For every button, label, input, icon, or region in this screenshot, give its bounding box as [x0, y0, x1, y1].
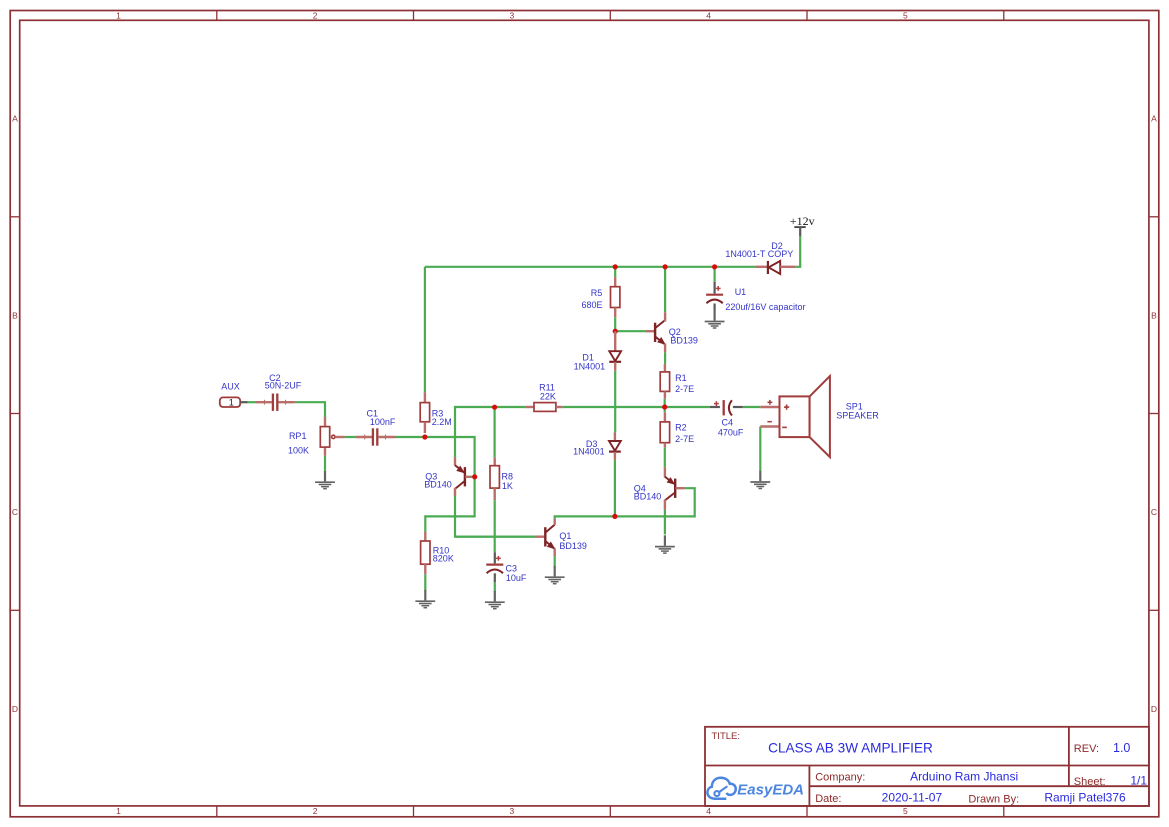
svg-text:1N4001: 1N4001	[573, 447, 605, 457]
diode D3	[609, 432, 621, 460]
wire RP1 wiper to C1	[345, 436, 356, 438]
resistor R1	[660, 364, 669, 399]
svg-text:680E: 680E	[581, 300, 602, 310]
svg-text:820K: 820K	[433, 553, 454, 563]
svg-text:C: C	[12, 507, 18, 517]
label C1	[367, 409, 396, 427]
svg-text:+12v: +12v	[790, 214, 815, 228]
transistor Q4	[665, 467, 685, 510]
svg-text:EasyEDA: EasyEDA	[737, 781, 804, 798]
wire Q1 emitter to ground	[554, 556, 556, 567]
label R1	[675, 373, 694, 394]
label C2	[265, 373, 302, 391]
capacitor C2	[255, 394, 294, 411]
wire C2 to corner to RP1	[295, 402, 325, 417]
wire Q4 base loop to node C	[615, 488, 695, 516]
svg-text:1.0: 1.0	[1113, 741, 1130, 755]
capacitor C3	[486, 552, 503, 582]
label U1	[725, 287, 805, 312]
label D2	[725, 241, 793, 259]
svg-text:1: 1	[116, 11, 121, 21]
svg-text:2: 2	[313, 806, 318, 816]
wire R11 to output node rail	[562, 406, 710, 408]
svg-text:C: C	[1151, 507, 1157, 517]
svg-text:10uF: 10uF	[506, 573, 527, 583]
svg-text:2.2M: 2.2M	[432, 417, 452, 427]
wire D1 to D3	[614, 371, 616, 433]
wire C3 lower segment	[494, 582, 496, 591]
svg-text:R5: R5	[591, 288, 603, 298]
resistor R3	[420, 392, 429, 433]
svg-text:4: 4	[706, 806, 711, 816]
svg-text:Q1: Q1	[559, 531, 571, 541]
resistor R5	[611, 277, 620, 317]
svg-text:CLASS AB 3W AMPLIFIER: CLASS AB 3W AMPLIFIER	[768, 741, 933, 756]
svg-text:SPEAKER: SPEAKER	[836, 411, 879, 421]
label R5	[581, 288, 602, 310]
wire Q2 collector to bus	[664, 267, 666, 313]
svg-text:2020-11-07: 2020-11-07	[882, 791, 943, 805]
svg-text:1N4001: 1N4001	[574, 361, 606, 371]
svg-text:1K: 1K	[502, 481, 513, 491]
capacitor C1	[355, 428, 395, 445]
label R2	[675, 423, 694, 445]
svg-text:100K: 100K	[288, 445, 309, 455]
svg-text:1: 1	[229, 398, 234, 408]
svg-text:220uf/16V capacitor: 220uf/16V capacitor	[725, 302, 805, 312]
wire R10 bottom to ground	[424, 574, 426, 590]
wire Q4 collector to ground	[664, 510, 666, 535]
svg-text:BD140: BD140	[634, 491, 662, 501]
wire node C to Q1 collector	[555, 516, 615, 518]
wire R5 bottom to node B	[614, 317, 616, 331]
ground Q1	[545, 566, 565, 584]
ground R10	[415, 590, 435, 608]
svg-text:TITLE:: TITLE:	[712, 731, 741, 742]
transistor Q3	[455, 457, 471, 496]
svg-text:3: 3	[510, 11, 515, 21]
svg-text:5: 5	[903, 11, 908, 21]
label R11	[539, 382, 556, 401]
diode D1	[609, 331, 621, 371]
svg-text:5: 5	[903, 806, 908, 816]
label R8	[502, 472, 514, 491]
connector AUX	[220, 397, 248, 407]
svg-text:BD140: BD140	[424, 479, 452, 489]
junction R8 rail	[492, 405, 497, 410]
ground RP1	[315, 471, 335, 489]
ground SP1	[750, 471, 770, 489]
svg-text:1: 1	[116, 806, 121, 816]
label D1	[574, 352, 606, 371]
wire Q3 base stub	[470, 476, 474, 478]
resistor R2	[660, 412, 669, 447]
ground Q4	[655, 535, 675, 553]
svg-text:Date:: Date:	[815, 793, 841, 805]
svg-text:D: D	[12, 704, 18, 714]
svg-text:R2: R2	[675, 423, 687, 433]
label RP1	[288, 431, 309, 455]
label Q1	[559, 531, 587, 551]
svg-text:2-7E: 2-7E	[675, 434, 694, 444]
wire output node to R2	[664, 407, 666, 412]
transistor Q2	[645, 312, 665, 352]
wire node A to Q3 base branch	[425, 437, 475, 532]
svg-text:BD139: BD139	[559, 541, 587, 551]
svg-text:B: B	[1151, 310, 1157, 320]
svg-text:Drawn By:: Drawn By:	[968, 793, 1019, 805]
label SP1	[836, 401, 879, 420]
wire speaker minus to ground	[759, 427, 761, 471]
wire R3 top to +12V bus	[424, 267, 426, 393]
svg-text:470uF: 470uF	[718, 427, 744, 437]
wire R8 bottom to C3	[494, 500, 496, 552]
wire C4 to speaker	[743, 406, 761, 408]
label R3	[432, 408, 452, 427]
wire D3 to node C	[614, 460, 616, 517]
node B junction	[613, 329, 618, 334]
wire U1 top	[713, 267, 715, 282]
svg-text:R1: R1	[675, 373, 687, 383]
ground C3	[485, 591, 505, 609]
resistor R11	[525, 403, 562, 412]
svg-text:1N4001-T COPY: 1N4001-T COPY	[725, 249, 793, 259]
node A junction	[422, 434, 427, 439]
resistor R10	[421, 532, 430, 575]
label C4	[718, 418, 744, 438]
junction Q2 collector	[663, 264, 668, 269]
title block	[705, 727, 1149, 806]
ground U1	[705, 310, 725, 328]
wire Q3 collector to Q1 base	[455, 496, 535, 537]
diode D2	[756, 261, 796, 274]
wire R8 top drop	[494, 407, 496, 457]
svg-text:AUX: AUX	[221, 382, 240, 392]
svg-text:22K: 22K	[540, 392, 556, 402]
transistor Q1	[455, 519, 555, 556]
svg-text:4: 4	[706, 11, 711, 21]
junction R5 top	[613, 264, 618, 269]
capacitor U1	[706, 282, 723, 311]
svg-text:50N-2UF: 50N-2UF	[265, 381, 302, 391]
capacitor C4	[710, 400, 743, 415]
wire rail to R11	[495, 406, 525, 408]
node C junction	[612, 514, 617, 519]
svg-text:2-7E: 2-7E	[675, 384, 694, 394]
wire Q3 emitter to R8/R11 rail	[455, 407, 495, 457]
svg-text:A: A	[1151, 114, 1157, 124]
label Q3	[424, 471, 452, 489]
svg-text:REV:: REV:	[1074, 743, 1099, 755]
svg-text:Arduino Ram Jhansi: Arduino Ram Jhansi	[910, 769, 1018, 783]
svg-text:D: D	[1151, 704, 1157, 714]
power +12v	[790, 214, 815, 236]
label Q4	[634, 484, 662, 502]
wire C1 to node A	[395, 436, 425, 438]
svg-text:Ramji Patel376: Ramji Patel376	[1044, 791, 1126, 805]
svg-text:Company:: Company:	[815, 771, 865, 783]
svg-text:RP1: RP1	[289, 431, 307, 441]
EasyEDA logo	[707, 778, 804, 799]
label Q2	[669, 327, 698, 346]
output node junction	[662, 404, 667, 409]
svg-text:BD139: BD139	[670, 336, 698, 346]
speaker SP1	[760, 376, 830, 457]
svg-text:1/1: 1/1	[1130, 773, 1147, 787]
svg-text:U1: U1	[735, 287, 747, 297]
svg-text:C4: C4	[722, 418, 734, 428]
label C3	[506, 563, 527, 583]
resistor R8	[490, 457, 499, 500]
svg-text:2: 2	[313, 11, 318, 21]
svg-text:100nF: 100nF	[370, 417, 396, 427]
svg-text:B: B	[12, 310, 18, 320]
junction U1 top	[712, 264, 717, 269]
label D3	[573, 439, 605, 457]
label AUX	[221, 382, 240, 392]
wire R5 top	[614, 267, 616, 277]
wire Q2 emitter to R1	[664, 352, 666, 364]
junction Q3 base	[472, 474, 477, 479]
svg-text:Sheet:: Sheet:	[1074, 776, 1106, 788]
label R10	[433, 546, 454, 564]
wire +12V bus	[425, 266, 756, 268]
potentiometer RP1	[320, 417, 344, 456]
wire R1 bottom to output node	[664, 399, 666, 407]
svg-text:3: 3	[510, 806, 515, 816]
wire R2 bottom to Q4	[664, 447, 666, 467]
svg-text:A: A	[12, 114, 18, 124]
svg-text:C3: C3	[506, 563, 518, 573]
wire Q2 base	[615, 330, 645, 332]
wire AUX to C2	[248, 401, 256, 403]
wire D2 to +12v corner	[796, 236, 801, 266]
wire RP1 bottom to ground	[324, 456, 326, 471]
